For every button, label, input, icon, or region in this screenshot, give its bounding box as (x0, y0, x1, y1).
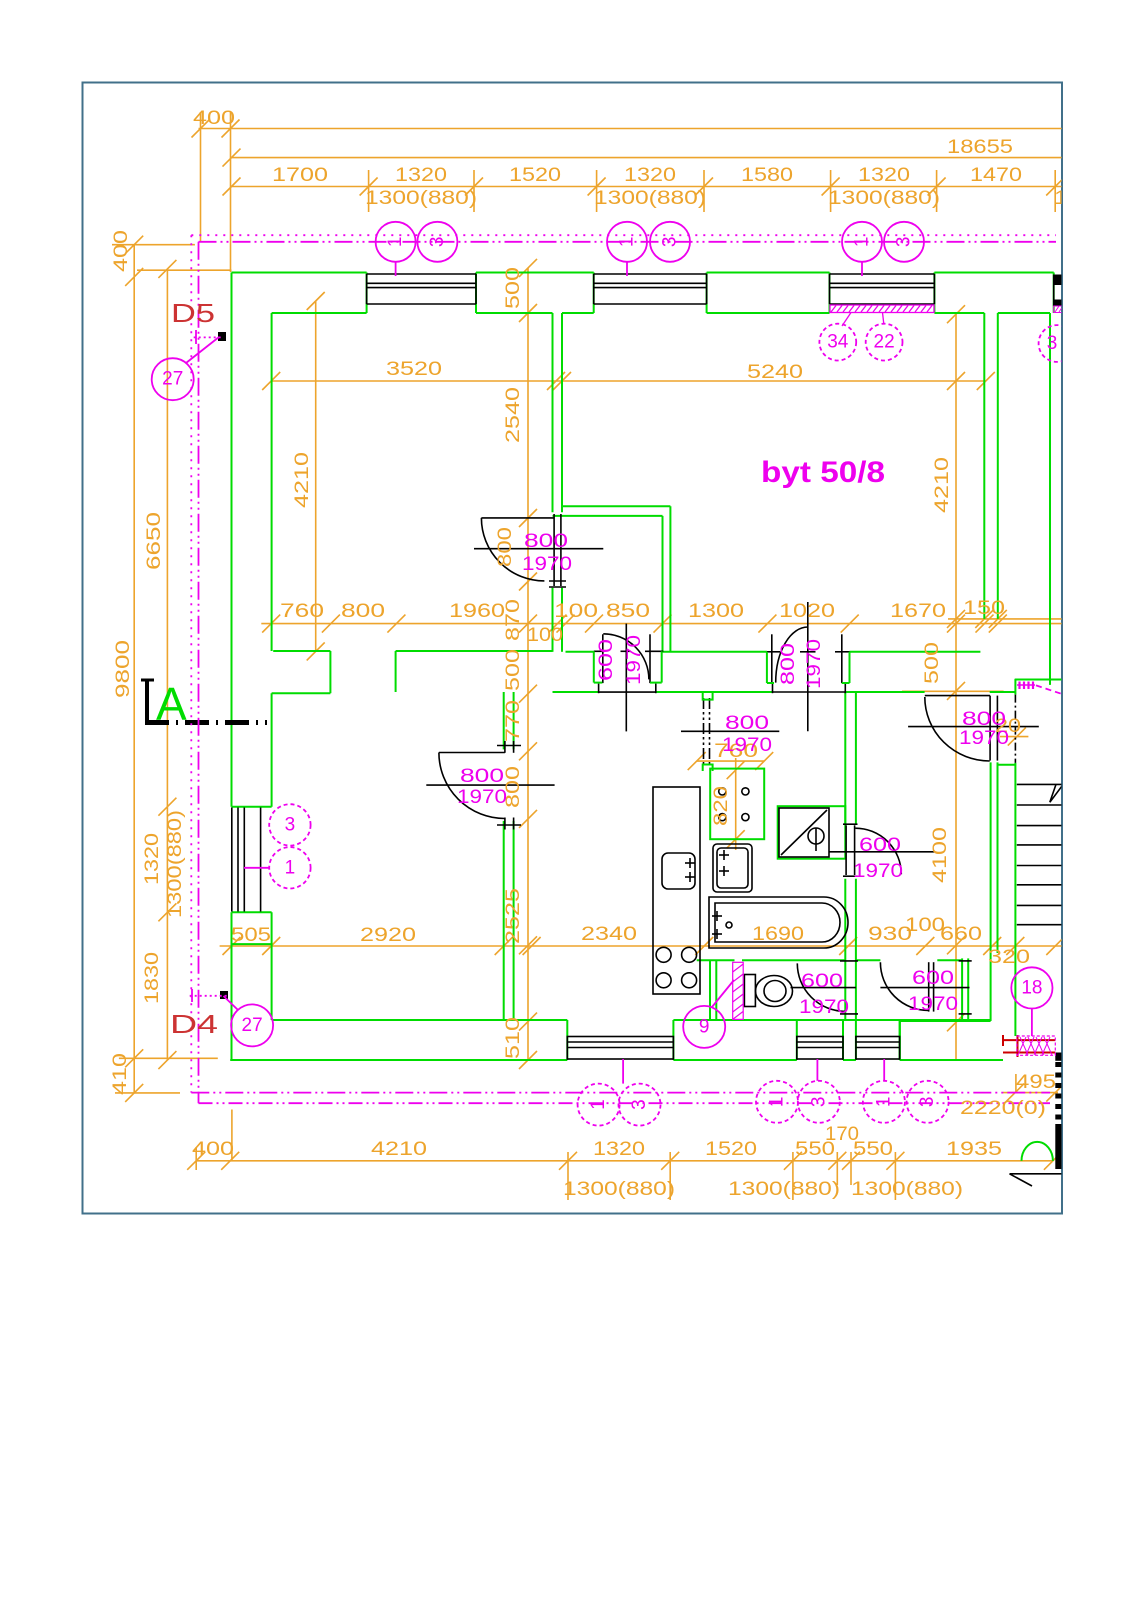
right edge black blocks (1055, 1053, 1061, 1170)
wall B room2 bottom (553, 515, 663, 517)
svg-text:800: 800 (725, 713, 769, 734)
bottom window W5 (567, 1037, 673, 1060)
bottom right corner mark (1010, 1174, 1063, 1186)
wc left wall (709, 960, 711, 1019)
kitchen 760 dim (697, 760, 765, 762)
green door arc bottom right (1022, 1142, 1053, 1161)
svg-text:400: 400 (111, 230, 132, 272)
svg-text:495: 495 (1016, 1072, 1056, 1093)
svg-text:1020: 1020 (779, 601, 835, 622)
svg-text:1520: 1520 (705, 1139, 757, 1160)
svg-text:870: 870 (503, 599, 524, 641)
svg-text:600: 600 (801, 971, 843, 992)
washer AP (779, 808, 829, 857)
window W1 (367, 274, 476, 304)
axis top dotted line (191, 234, 1056, 236)
room1 vertical chain x=315.7 (4210) (315, 301, 317, 651)
svg-text:100: 100 (905, 915, 945, 936)
corridor dim line y=691.3 (902, 690, 1004, 692)
svg-text:800: 800 (778, 643, 799, 685)
svg-text:22: 22 (874, 332, 895, 353)
svg-text:1970: 1970 (804, 639, 825, 689)
bottom circle pair 2 (756, 1059, 840, 1123)
wall top inner edge (272, 312, 367, 314)
svg-text:800: 800 (962, 709, 1006, 730)
svg-text:1300(880): 1300(880) (563, 1179, 675, 1200)
leader square D4 (220, 991, 228, 999)
circles 3 and 1 left (244, 804, 311, 888)
svg-text:1935: 1935 (946, 1139, 1002, 1160)
svg-text:800: 800 (524, 531, 568, 552)
right wall x=1050 (1049, 313, 1051, 685)
svg-text:320: 320 (988, 947, 1030, 968)
svg-text:1: 1 (385, 237, 406, 248)
hall dim line y=623.6 (261, 623, 1062, 625)
kitchen 820 vertical dim (735, 758, 737, 850)
svg-text:1670: 1670 (890, 601, 946, 622)
corridor right lower wall x=962.1/968.2 (961, 958, 963, 1019)
svg-text:1320: 1320 (593, 1139, 645, 1160)
svg-text:18655: 18655 (947, 137, 1013, 158)
wall E room1 bottom (273, 650, 330, 652)
svg-text:1970: 1970 (908, 994, 958, 1015)
svg-text:660: 660 (940, 924, 982, 945)
center vertical chain x=528 (527, 268, 529, 1061)
svg-text:850: 850 (606, 601, 650, 622)
20 level mark (1000, 736, 1028, 738)
svg-text:3520: 3520 (386, 359, 442, 380)
window W3 (830, 274, 935, 304)
toilet (744, 975, 792, 1007)
svg-text:400: 400 (193, 108, 235, 129)
window axis circles pair 1 (376, 222, 458, 276)
wall D hall bottom edge (553, 691, 599, 693)
svg-text:3: 3 (660, 237, 681, 248)
svg-text:800: 800 (341, 601, 385, 622)
svg-text:3: 3 (808, 1097, 829, 1108)
svg-text:1970: 1970 (722, 735, 772, 756)
495 dim (1003, 1092, 1058, 1094)
svg-text:1300(880): 1300(880) (365, 188, 477, 209)
hob burners (656, 947, 671, 962)
150 dim line y=618.9 (948, 618, 1062, 620)
kitchen hob nook green (710, 769, 764, 840)
svg-text:100: 100 (527, 625, 563, 646)
magenta diagonal at insulation (1036, 685, 1061, 693)
axis left vertical outer (190, 235, 192, 1092)
svg-text:600: 600 (596, 639, 617, 681)
circle 27 bottom with leader (190, 989, 273, 1046)
corridor door 600 (880, 961, 971, 1014)
circle 9 (683, 980, 734, 1048)
bottom window W7 (856, 1037, 900, 1060)
svg-text:1320: 1320 (858, 165, 910, 186)
svg-text:770: 770 (503, 700, 524, 742)
svg-text:150: 150 (963, 598, 1005, 619)
svg-text:1300(880): 1300(880) (594, 188, 706, 209)
wall A room1/room2 x=552.5/562 (552, 313, 554, 512)
bottom circle pair 1 (578, 1059, 661, 1126)
svg-text:1520: 1520 (509, 165, 561, 186)
svg-text:170: 170 (825, 1124, 859, 1145)
bottom witness vertical (231, 1110, 233, 1161)
wall left inner edge (271, 313, 273, 651)
svg-text:510: 510 (503, 1017, 524, 1059)
svg-text:1320: 1320 (142, 833, 163, 885)
witness vertical x=230.5 (230, 112, 232, 272)
svg-text:550: 550 (853, 1139, 893, 1160)
svg-text:5240: 5240 (747, 362, 803, 383)
witness vertical x=200.5 (200, 112, 202, 241)
sink 2 (713, 844, 752, 892)
svg-text:1320: 1320 (395, 165, 447, 186)
svg-text:500: 500 (922, 642, 943, 684)
washer green surround (778, 806, 846, 859)
svg-text:1470: 1470 (970, 165, 1022, 186)
svg-text:D4: D4 (170, 1009, 218, 1039)
window axis circles pair 2 (607, 222, 690, 276)
svg-text:3: 3 (427, 237, 448, 248)
svg-text:1970: 1970 (853, 861, 903, 882)
kitchen door green notches (703, 692, 713, 771)
svg-text:2525: 2525 (503, 888, 524, 944)
svg-text:1970: 1970 (624, 635, 645, 685)
wc door 600 (791, 961, 859, 1014)
window4 sill hatch clipped (1054, 306, 1063, 313)
left inner dim chain x=167.4 (166, 269, 168, 1060)
svg-text:34: 34 (827, 332, 849, 353)
svg-text:4210: 4210 (371, 1139, 427, 1160)
svg-text:800: 800 (495, 527, 516, 567)
svg-text:1300(880): 1300(880) (165, 810, 186, 918)
svg-text:1: 1 (852, 237, 873, 248)
lower right interior wall (900, 1020, 991, 1022)
wall bottom outer edge (230, 1059, 567, 1061)
svg-text:4210: 4210 (932, 457, 953, 513)
window witness verticals (368, 170, 370, 212)
kitchen counter (653, 787, 700, 994)
wall left outer edge (231, 273, 233, 807)
insulation joint top right (1015, 682, 1035, 763)
door F room3 (426, 741, 554, 830)
circle 18 (1011, 967, 1052, 1036)
axis top dash line (199, 241, 1057, 243)
svg-text:1300(880): 1300(880) (828, 188, 940, 209)
wall D hall top edge (566, 651, 594, 653)
circle 34 clipped right (1039, 325, 1076, 362)
stair left wall x=1016 (1014, 679, 1016, 695)
window jambs top wall (366, 273, 368, 314)
svg-text:4100: 4100 (930, 827, 951, 883)
svg-text:1970: 1970 (457, 787, 507, 808)
svg-text:1: 1 (767, 1097, 788, 1108)
kitchen door leaf (681, 698, 779, 766)
hall door 600 green jambs (594, 651, 662, 682)
svg-text:1970: 1970 (522, 554, 572, 575)
section line A-A (141, 679, 267, 723)
svg-text:6650: 6650 (144, 512, 165, 570)
svg-text:500: 500 (503, 649, 524, 691)
wall F room3 right x=503.7/513.6 (503, 692, 505, 749)
balcony window jambs (232, 806, 272, 808)
svg-text:760: 760 (280, 601, 324, 622)
svg-text:4210: 4210 (292, 452, 313, 508)
svg-text:3: 3 (917, 1097, 938, 1108)
kitchen/bath right wall x=845.3/855.9 (844, 692, 846, 825)
svg-text:3: 3 (285, 814, 296, 835)
corridor door 800 top (908, 696, 1039, 761)
balcony window B1 (232, 808, 261, 912)
svg-text:1: 1 (617, 237, 638, 248)
bath/wc top wall (697, 959, 735, 961)
bath door 600 (829, 824, 935, 876)
svg-text:3: 3 (894, 237, 915, 248)
wall bottom inner edge (272, 1019, 568, 1021)
top dim line 3 (window chain) (232, 186, 1063, 188)
staircase top wall y=684.9 (1015, 679, 1062, 681)
bath tub (709, 897, 848, 948)
svg-text:3: 3 (629, 1099, 650, 1110)
svg-text:1300(880): 1300(880) (851, 1179, 963, 1200)
wall C x=662.5/670.4 (662, 516, 664, 652)
svg-text:27: 27 (162, 369, 183, 390)
left outer dim chain x=134.2 (133, 245, 135, 1093)
svg-text:2920: 2920 (360, 925, 416, 946)
svg-text:800: 800 (460, 766, 504, 787)
svg-text:1830: 1830 (142, 952, 163, 1004)
stairs treads (1017, 784, 1062, 924)
bottom middle dim line y=946 (220, 945, 1062, 947)
svg-text:9800: 9800 (113, 640, 134, 698)
dim line 3520/5240 y=381 (271, 380, 986, 382)
svg-text:1: 1 (285, 857, 296, 878)
svg-text:1580: 1580 (741, 165, 793, 186)
svg-text:2540: 2540 (503, 387, 524, 443)
svg-text:1: 1 (588, 1099, 609, 1110)
top dim line 2 (18655 overall) (232, 157, 1063, 159)
corridor walls x=990.6/997.5 (990, 762, 992, 1021)
svg-text:1320: 1320 (624, 165, 676, 186)
svg-text:600: 600 (912, 968, 954, 989)
window W2 (594, 274, 707, 304)
window3 sill hatch (830, 305, 934, 326)
svg-text:byt 50/8: byt 50/8 (761, 456, 885, 489)
leader square D5 (218, 332, 226, 341)
hall door 800 green jambs (767, 652, 850, 683)
bottom label witness verticals (567, 1152, 569, 1200)
bottom window jambs (566, 1020, 568, 1060)
stair/corridor long wall x=984.3/997.8 (983, 313, 985, 619)
red hatch box bottom right (1003, 1035, 1055, 1057)
top dim line 1 (400 overall offset) (199, 128, 1063, 130)
svg-text:1690: 1690 (752, 924, 804, 945)
wall top outer edge (232, 272, 367, 274)
bottom window W6 (797, 1037, 843, 1060)
svg-text:600: 600 (859, 835, 901, 856)
svg-text:410: 410 (110, 1053, 131, 1095)
svg-text:1700: 1700 (272, 165, 328, 186)
hall door 600 (594, 624, 664, 732)
svg-text:505: 505 (231, 925, 271, 946)
svg-text:820: 820 (711, 786, 732, 826)
page border frame (83, 83, 1063, 1214)
window W4 clipped (1054, 275, 1066, 307)
svg-text:3: 3 (1047, 333, 1058, 354)
bottom dim chain y=1160.8 (196, 1160, 1053, 1162)
svg-text:1300(880): 1300(880) (728, 1179, 840, 1200)
svg-text:2340: 2340 (581, 924, 637, 945)
axis bottom line 1 (191, 1092, 1050, 1094)
axis bottom line 2 (199, 1102, 1051, 1104)
svg-text:1960: 1960 (449, 601, 505, 622)
circles 34 22 (819, 324, 902, 361)
svg-text:27: 27 (242, 1015, 263, 1036)
svg-text:1: 1 (873, 1097, 894, 1108)
svg-text:1970: 1970 (799, 997, 849, 1018)
svg-text:18: 18 (1021, 977, 1042, 998)
svg-text:100: 100 (554, 601, 598, 622)
sink 1 (662, 853, 695, 889)
door A room1-room2 (474, 514, 603, 587)
svg-text:D5: D5 (171, 298, 215, 328)
svg-text:400: 400 (192, 1139, 234, 1160)
hall door 800 (767, 602, 850, 731)
svg-text:1970: 1970 (959, 728, 1009, 749)
bottom circle pair 3 (863, 1059, 949, 1123)
circle 27 top with leader (152, 330, 222, 400)
wc vent hatch strip (733, 962, 744, 1019)
svg-text:500: 500 (503, 267, 524, 309)
svg-text:9: 9 (699, 1016, 710, 1037)
svg-text:2220(0): 2220(0) (960, 1098, 1046, 1119)
window axis circles pair 3 (842, 222, 924, 276)
svg-text:1300: 1300 (688, 601, 744, 622)
hob small burners (719, 788, 749, 821)
axis left vertical inner (198, 242, 200, 1103)
right vertical chain x=956 (955, 313, 957, 1061)
